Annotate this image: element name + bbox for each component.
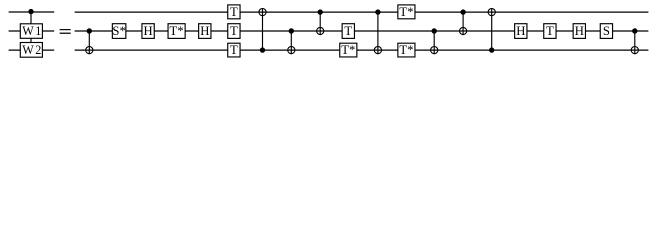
svg-text:T*: T*	[341, 43, 355, 57]
svg-text:1: 1	[35, 24, 41, 38]
svg-text:H: H	[144, 24, 153, 38]
svg-text:T: T	[230, 43, 238, 57]
svg-text:T: T	[230, 24, 238, 38]
svg-text:T*: T*	[399, 5, 413, 19]
svg-text:2: 2	[35, 43, 41, 57]
svg-text:W: W	[22, 43, 34, 57]
svg-text:T*: T*	[170, 24, 184, 38]
svg-text:S: S	[603, 24, 610, 38]
svg-text:T*: T*	[399, 43, 413, 57]
svg-text:T: T	[344, 24, 352, 38]
svg-text:T: T	[230, 5, 238, 19]
svg-text:H: H	[516, 24, 525, 38]
svg-text:H: H	[575, 24, 584, 38]
svg-text:S*: S*	[112, 24, 125, 38]
svg-text:W: W	[22, 24, 34, 38]
svg-text:T: T	[546, 24, 554, 38]
svg-text:H: H	[200, 24, 209, 38]
